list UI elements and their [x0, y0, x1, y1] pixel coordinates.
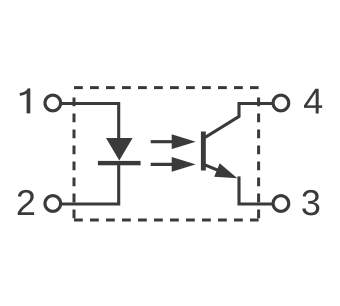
LED D1 anode triangle	[106, 138, 133, 161]
wire pin 1 to LED anode	[62, 104, 119, 139]
LED D1 cathode bar	[98, 161, 141, 165]
wire LED cathode to pin 2	[62, 165, 119, 204]
pin 4 label	[304, 89, 322, 114]
pin 1 terminal	[45, 95, 61, 111]
pin 2 label	[18, 190, 34, 215]
phototransistor Q1 base bar	[201, 132, 206, 171]
package outline (dashed box)	[74, 88, 259, 220]
pin 2 terminal	[45, 196, 61, 212]
phototransistor collector lead	[204, 104, 272, 139]
phototransistor emitter lead with arrow	[204, 163, 238, 178]
light arrow 2	[151, 157, 196, 172]
pin 4 terminal	[273, 95, 289, 111]
pin 3 terminal	[273, 196, 289, 212]
wire emitter to pin 3	[239, 176, 272, 204]
pin 3 label	[302, 190, 319, 215]
pin 1 label	[20, 88, 31, 113]
light arrow 1	[151, 134, 196, 149]
